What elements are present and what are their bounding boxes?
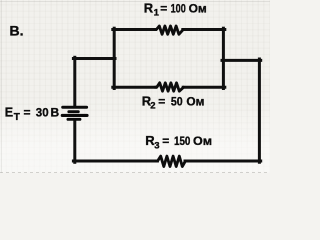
svg-text:30: 30 xyxy=(36,105,49,119)
svg-text:В.: В. xyxy=(10,23,24,39)
svg-text:В: В xyxy=(51,105,60,119)
resistor R3 (zigzag) xyxy=(156,156,185,166)
battery ET plate 2 (short) xyxy=(67,110,79,113)
svg-text:100: 100 xyxy=(171,1,186,15)
svg-text:150: 150 xyxy=(174,134,191,148)
svg-text:T: T xyxy=(14,112,20,123)
svg-text:=: = xyxy=(158,94,165,108)
wire: box top-right segment from R1 xyxy=(183,28,225,31)
battery ET plate 1 (long, + top) xyxy=(61,106,88,109)
battery ET plate 4 (short, - bottom) xyxy=(67,118,82,121)
svg-text:=: = xyxy=(162,134,169,148)
wire: box top-left segment to R1 xyxy=(113,28,156,31)
resistor R1 (zigzag) xyxy=(155,26,183,34)
wire: box bottom-left segment to R2 xyxy=(113,86,156,89)
svg-text:3: 3 xyxy=(154,140,159,151)
wire: right stub from box to outer right branch xyxy=(222,59,261,62)
wire: box left edge xyxy=(113,28,116,88)
label: R1 = 100 Ом (value) xyxy=(144,0,207,18)
wire: left vertical, battery - terminal down to bottom rail xyxy=(73,121,76,163)
svg-text:=: = xyxy=(24,105,31,119)
svg-text:2: 2 xyxy=(150,101,155,112)
svg-text:1: 1 xyxy=(154,8,160,19)
resistor R2 (zigzag) xyxy=(155,83,183,91)
svg-text:Ом: Ом xyxy=(189,1,207,15)
battery ET plate 3 (long) xyxy=(61,114,89,117)
svg-text:50: 50 xyxy=(171,94,183,108)
svg-text:Ом: Ом xyxy=(193,134,212,148)
wire: bottom rail right segment from R3 xyxy=(185,160,261,163)
label: R2 = 50 Ом (value) xyxy=(142,93,205,111)
label: R3 = 150 Ом (value) xyxy=(145,133,212,151)
wire: box right edge xyxy=(222,28,225,88)
svg-text:R: R xyxy=(144,0,154,15)
wire: outer right vertical branch xyxy=(258,59,261,162)
wire: box bottom-right segment from R2 xyxy=(183,86,225,89)
label: E_T = 30 В (source value) xyxy=(5,105,60,123)
wire: left vertical, box stub down to battery + terminal xyxy=(73,57,76,106)
svg-text:E: E xyxy=(5,105,13,119)
wire: left stub from battery branch to parallel box xyxy=(73,57,115,60)
wire: bottom rail left segment to R3 xyxy=(73,160,157,163)
svg-text:Ом: Ом xyxy=(186,94,204,108)
svg-text:=: = xyxy=(160,1,167,15)
